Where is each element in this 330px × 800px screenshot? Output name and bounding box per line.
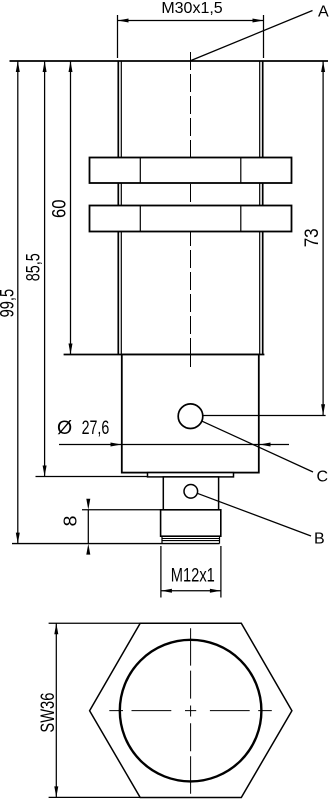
svg-text:60: 60: [49, 199, 71, 218]
svg-text:M30x1,5: M30x1,5: [161, 0, 222, 17]
svg-text:SW36: SW36: [37, 693, 59, 733]
svg-text:27,6: 27,6: [82, 417, 110, 439]
svg-text:99,5: 99,5: [0, 289, 19, 318]
svg-text:B: B: [314, 531, 325, 548]
svg-text:M12x1: M12x1: [171, 564, 215, 586]
svg-text:C: C: [317, 469, 329, 486]
svg-text:8: 8: [60, 516, 80, 527]
svg-text:73: 73: [301, 228, 323, 247]
svg-text:85,5: 85,5: [23, 253, 45, 281]
svg-text:A: A: [318, 4, 329, 21]
svg-text:Ø: Ø: [57, 417, 72, 439]
